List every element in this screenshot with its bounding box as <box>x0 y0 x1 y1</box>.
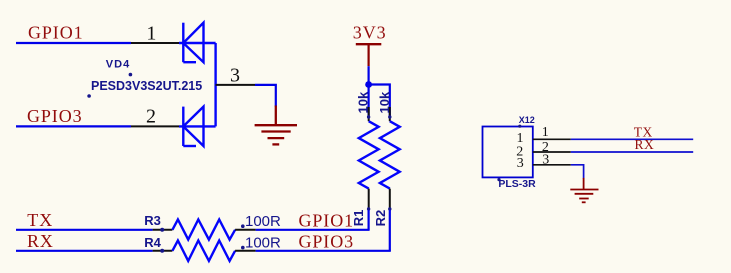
svg-text:R2: R2 <box>373 210 388 227</box>
wire pin3 to ground right <box>571 165 584 179</box>
pin 1 of VD4 <box>131 23 179 45</box>
junction <box>365 81 372 88</box>
svg-text:100R: 100R <box>245 235 281 252</box>
value PESD3V3S2UT.215 <box>87 79 202 98</box>
svg-text:3: 3 <box>230 64 240 86</box>
svg-text:1: 1 <box>146 23 156 45</box>
resistor R2 <box>380 107 400 211</box>
svg-text:VD4: VD4 <box>106 58 130 70</box>
svg-text:2: 2 <box>146 106 156 128</box>
pin 3 of X12 <box>517 153 571 172</box>
resistor R1 <box>359 107 379 211</box>
wire pin3 to ground <box>255 85 276 107</box>
value 100R of R3 <box>241 213 281 230</box>
svg-text:GPIO1: GPIO1 <box>28 23 84 43</box>
svg-text:TX: TX <box>27 210 53 230</box>
svg-text:10k: 10k <box>355 91 370 113</box>
svg-text:1: 1 <box>542 125 549 140</box>
power port 3V3 <box>353 23 387 66</box>
designator VD4 <box>106 58 132 76</box>
svg-text:X12: X12 <box>519 115 535 125</box>
svg-text:GPIO3: GPIO3 <box>27 106 83 126</box>
diode VD4 bottom (zener) <box>179 107 216 146</box>
wire TX right <box>571 138 693 140</box>
pin 1 of X12 <box>517 125 571 146</box>
resistor R3 <box>153 220 256 240</box>
svg-text:GPIO1: GPIO1 <box>299 210 355 230</box>
svg-text:GPIO3: GPIO3 <box>299 232 355 252</box>
pin 3 of VD4 <box>216 64 255 86</box>
ground left <box>255 106 297 145</box>
wire R1 to GPIO1 row <box>368 210 370 230</box>
wire branch to R2 <box>369 85 390 118</box>
wire GPIO1 <box>16 42 131 44</box>
svg-text:RX: RX <box>635 137 655 152</box>
wire R4 to R2 column <box>256 250 391 252</box>
resistor R4 <box>153 241 256 261</box>
wire anode bus of VD4 <box>214 43 216 126</box>
ground right <box>570 178 598 202</box>
connector X12 body <box>483 127 533 178</box>
designator X12 <box>518 115 535 128</box>
value PLS-3R <box>497 178 536 190</box>
value 100R of R4 <box>241 235 281 252</box>
svg-text:100R: 100R <box>245 213 281 230</box>
wire TX row left <box>16 229 153 231</box>
svg-text:R3: R3 <box>144 213 161 228</box>
designator R3 <box>144 213 164 232</box>
wire R2 to GPIO3 row <box>389 210 391 251</box>
svg-text:3: 3 <box>517 156 524 171</box>
pin 2 of X12 <box>516 140 571 160</box>
wire 3V3 stem <box>368 66 370 117</box>
pin 2 of VD4 <box>131 106 179 128</box>
designator R4 <box>144 235 164 253</box>
diode VD4 top (zener) <box>179 23 216 63</box>
svg-text:R4: R4 <box>144 235 161 250</box>
svg-text:10k: 10k <box>377 91 392 113</box>
wire R3 to R1 column <box>256 229 370 231</box>
wire GPIO3 <box>16 125 131 127</box>
svg-text:RX: RX <box>27 231 54 251</box>
wire RX right <box>571 151 693 153</box>
svg-text:PESD3V3S2UT.215: PESD3V3S2UT.215 <box>91 79 202 93</box>
svg-text:3: 3 <box>542 153 549 168</box>
svg-text:3V3: 3V3 <box>353 23 387 43</box>
wire RX row left <box>16 250 153 252</box>
svg-text:PLS-3R: PLS-3R <box>498 178 536 190</box>
